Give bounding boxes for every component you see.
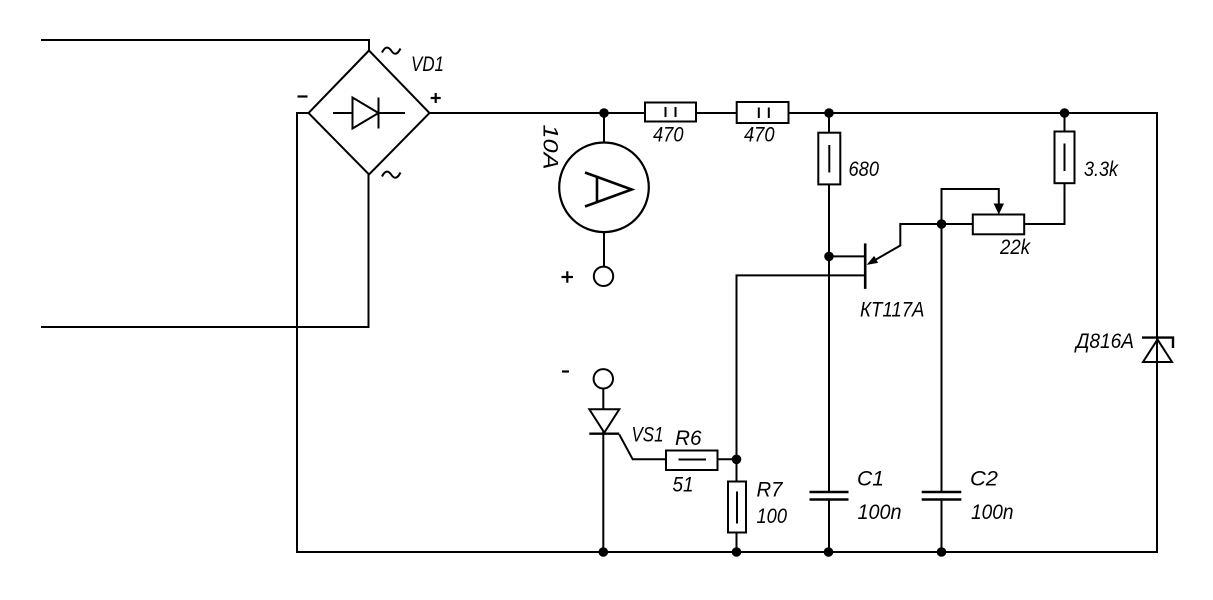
svg-text:КТ117А: КТ117А [860,299,925,322]
svg-text:22k: 22k [999,236,1031,259]
svg-text:C2: C2 [970,468,998,491]
svg-text:51: 51 [673,474,694,497]
svg-text:R6: R6 [675,427,702,450]
svg-text:470: 470 [744,124,775,147]
svg-text:C1: C1 [857,468,884,491]
svg-text:R7: R7 [757,479,784,502]
svg-text:Д816А: Д816А [1074,330,1134,353]
svg-text:680: 680 [849,158,880,181]
svg-text:3.3k: 3.3k [1084,158,1119,181]
svg-text:10A: 10A [539,125,562,170]
svg-text:VS1: VS1 [632,424,664,447]
svg-text:470: 470 [653,124,684,147]
svg-text:100n: 100n [858,501,902,524]
svg-text:VD1: VD1 [411,53,444,76]
svg-text:100: 100 [757,505,788,528]
svg-text:100n: 100n [971,501,1014,524]
